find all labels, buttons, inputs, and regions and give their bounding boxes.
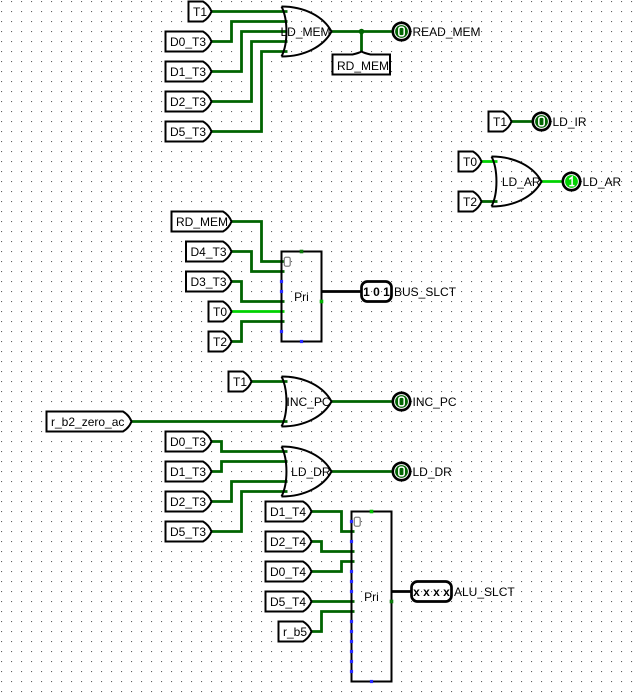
svg-text:1: 1 [383, 285, 390, 299]
Pri2 floating input dot [350, 590, 353, 593]
wire T1 to INC_PC input [252, 380, 288, 383]
Pri2 floating input dot [350, 580, 353, 583]
svg-text:D5_T3: D5_T3 [170, 125, 206, 139]
Pri2 floating input dot [350, 630, 353, 633]
wire T1 to LD_MEM input [212, 10, 288, 13]
wire D1_T3 to LD_DR input [212, 462, 288, 472]
output pin INC_PC [393, 393, 410, 410]
wire D0_T3 to LD_DR input [212, 442, 288, 452]
wire D2_T3 to LD_DR input [212, 482, 288, 502]
output pin LD_DR [393, 463, 410, 480]
tunnel D0_T3 (LD_DR) [166, 432, 212, 452]
wire RD_MEM to Pri1 input 0 [232, 222, 285, 262]
wire junction drop to RD_MEM tunnel [360, 32, 363, 52]
Pri2 floating input dot [350, 650, 353, 653]
or-gate LD_DR [282, 447, 332, 497]
svg-text:RD_MEM: RD_MEM [337, 59, 389, 73]
or-gate LD_AR [492, 157, 542, 207]
svg-text:r_b2_zero_ac: r_b2_zero_ac [51, 415, 124, 429]
tunnel D2_T4 [266, 532, 312, 552]
svg-text:LD_AR: LD_AR [583, 175, 622, 189]
svg-text:LD_DR: LD_DR [413, 465, 453, 479]
Pri2 enable-in dot [370, 510, 374, 514]
svg-text:1: 1 [363, 285, 370, 299]
svg-text:T1: T1 [233, 375, 247, 389]
svg-text:T1: T1 [193, 5, 207, 19]
Pri2 input-0 label [354, 517, 360, 526]
Pri2 floating input dot [350, 520, 353, 523]
wire D3_T3 to Pri1 input 4 [232, 282, 285, 302]
svg-text:x: x [443, 585, 450, 599]
tunnel D4_T3 [186, 242, 232, 262]
tunnel D2_T3 [166, 92, 212, 112]
tunnel D5_T3 [166, 122, 212, 142]
wire Pri2 output bus to ALU_SLCT [392, 590, 412, 593]
Pri1 floating input dot [280, 290, 283, 293]
wire D0_T3 to LD_MEM input [212, 22, 288, 42]
svg-text:x: x [433, 585, 440, 599]
wire T2 to LD_AR input [482, 200, 498, 203]
wire D2_T3 to LD_MEM input [212, 42, 288, 102]
tunnel T1 [189, 2, 212, 22]
svg-text:D5_T3: D5_T3 [170, 525, 206, 539]
svg-text:x: x [413, 585, 420, 599]
svg-text:T0: T0 [213, 305, 227, 319]
label ALU_SLCT [454, 585, 515, 599]
svg-text:D1_T3: D1_T3 [170, 65, 206, 79]
svg-text:Pri: Pri [364, 590, 379, 604]
Pri1 floating input dot [280, 330, 283, 333]
svg-text:0: 0 [373, 285, 380, 299]
svg-text:LD_DR: LD_DR [291, 465, 331, 479]
wire T0 to Pri1 input 5 [232, 310, 285, 313]
Pri2 floating input dot [350, 540, 353, 543]
tunnel T0 (LD_AR) [459, 152, 482, 172]
tunnel RD_MEM (Pri1) [172, 212, 232, 232]
wire Pri1 output bus to BUS_SLCT [322, 290, 362, 293]
Pri1 group-out dot [300, 340, 303, 343]
Pri2 floating input dot [350, 640, 353, 643]
wire LD_DR output to pin [332, 470, 392, 473]
wire INC_PC output to pin [332, 400, 392, 403]
Pri2 group-out dot [370, 680, 373, 683]
Pri1 enable-in dot [300, 250, 304, 254]
svg-text:D1_T3: D1_T3 [170, 465, 206, 479]
priority encoder Pri2 [352, 512, 392, 682]
tunnel T1 (INC_PC) [229, 372, 252, 392]
svg-text:BUS_SLCT: BUS_SLCT [394, 285, 457, 299]
tunnel T2 (LD_AR) [459, 192, 482, 212]
tunnel T0 (Pri1) [209, 302, 232, 322]
tunnel D1_T3 (LD_DR) [166, 462, 212, 482]
tunnel RD_MEM (up) [333, 52, 391, 75]
svg-text:D3_T3: D3_T3 [191, 275, 227, 289]
svg-text:LD_MEM: LD_MEM [280, 25, 330, 39]
tunnel D0_T4 [266, 562, 312, 582]
svg-text:LD_AR: LD_AR [502, 175, 541, 189]
wire D4_T3 to Pri1 input 1 [232, 252, 285, 272]
Pri1 enable-out dot [320, 300, 324, 304]
output pin ALU_SLCT [412, 582, 452, 602]
wire r_b2_zero_ac to INC_PC input [132, 420, 288, 423]
priority encoder Pri1 [282, 252, 322, 342]
wire D1_T3 to LD_MEM input [212, 32, 288, 72]
svg-text:INC_PC: INC_PC [413, 395, 457, 409]
Pri2 enable-out dot [390, 600, 394, 604]
wire T0 to LD_AR input [482, 160, 498, 163]
Pri1 input-0 label [284, 257, 290, 266]
tunnel D0_T3 [166, 32, 212, 52]
tunnel D5_T4 [266, 592, 312, 612]
output pin BUS_SLCT [362, 282, 392, 302]
tunnel D3_T3 [186, 272, 232, 292]
Pri2 floating input dot [350, 570, 353, 573]
svg-text:READ_MEM: READ_MEM [413, 25, 481, 39]
svg-text:RD_MEM: RD_MEM [176, 215, 228, 229]
tunnel D5_T3 (LD_DR) [166, 522, 212, 542]
or-gate LD_MEM [280, 7, 331, 57]
svg-text:D1_T4: D1_T4 [270, 505, 306, 519]
wire D2_T4 to Pri2 input 3 [312, 542, 355, 552]
wire D5_T3 to LD_MEM input [212, 52, 288, 132]
svg-text:LD_IR: LD_IR [553, 115, 587, 129]
wire D0_T4 to Pri2 input 4 [312, 562, 355, 572]
svg-text:Pri: Pri [294, 290, 309, 304]
Pri2 floating input dot [350, 670, 353, 673]
tunnel D1_T3 [166, 62, 212, 82]
svg-text:D0_T3: D0_T3 [170, 35, 206, 49]
output pin READ_MEM [393, 23, 410, 40]
svg-text:ALU_SLCT: ALU_SLCT [454, 585, 515, 599]
svg-text:T0: T0 [463, 155, 477, 169]
tunnel T2 (Pri1) [209, 332, 232, 352]
output pin LD_AR [563, 173, 580, 190]
tunnel r_b5 [279, 622, 312, 642]
label INC_PC [413, 395, 457, 409]
svg-text:D0_T4: D0_T4 [270, 565, 306, 579]
svg-text:r_b5: r_b5 [283, 625, 307, 639]
label LD_AR [583, 175, 622, 189]
svg-text:D4_T3: D4_T3 [191, 245, 227, 259]
junction node [359, 29, 365, 35]
wire LD_AR output to pin [542, 180, 562, 183]
tunnel D1_T4 [266, 502, 312, 522]
svg-text:D0_T3: D0_T3 [170, 435, 206, 449]
tunnel r_b2_zero_ac [47, 412, 132, 432]
svg-text:D2_T4: D2_T4 [270, 535, 306, 549]
svg-text:T1: T1 [493, 115, 507, 129]
Pri2 floating input dot [350, 620, 353, 623]
wire T2 to Pri1 input 6 [232, 322, 285, 342]
output pin LD_IR [533, 113, 550, 130]
svg-text:D2_T3: D2_T3 [170, 495, 206, 509]
label READ_MEM [413, 25, 481, 39]
wire D1_T4 to Pri2 input 1 [312, 512, 355, 532]
svg-text:D2_T3: D2_T3 [170, 95, 206, 109]
svg-text:INC_PC: INC_PC [286, 395, 330, 409]
wire D5_T3 to LD_DR input [212, 492, 288, 532]
svg-text:x: x [423, 585, 430, 599]
wire r_b5 to Pri2 input 9 [312, 612, 355, 632]
or-gate INC_PC [282, 377, 332, 427]
label BUS_SLCT [394, 285, 457, 299]
Pri1 floating input dot [280, 280, 283, 283]
svg-text:T2: T2 [463, 195, 477, 209]
tunnel T1 (LD_IR) [489, 112, 512, 132]
label LD_IR [553, 115, 587, 129]
wire D5_T4 to Pri2 input 8 [312, 600, 355, 603]
svg-text:T2: T2 [213, 335, 227, 349]
Pri2 floating input dot [350, 660, 353, 663]
tunnel D2_T3 (LD_DR) [166, 492, 212, 512]
wire T1 to LD_IR pin [512, 120, 532, 123]
svg-text:D5_T4: D5_T4 [270, 595, 306, 609]
wire LD_MEM output to READ_MEM pin [332, 30, 392, 33]
label LD_DR [413, 465, 453, 479]
